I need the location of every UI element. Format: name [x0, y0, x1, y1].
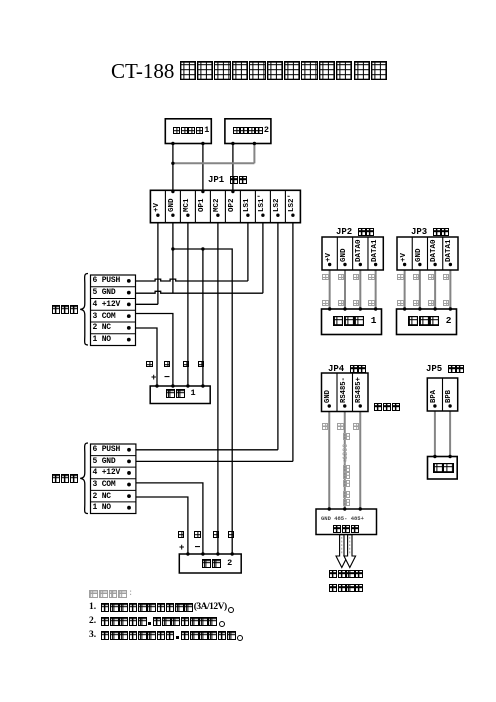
box: PSU1 terminal rows — [91, 275, 136, 346]
label: JP5 pin names — [430, 373, 440, 403]
connector JP5 — [427, 378, 457, 411]
box: card reader 1 — [322, 309, 382, 335]
connector JP3 — [397, 237, 458, 270]
label: shielded twisted pair <1200m (rotated) — [343, 434, 351, 506]
connector JP2 — [322, 237, 383, 270]
note item 2 — [89, 617, 225, 627]
wire: JP1 LS1' down then left to PSU1 GND (hop at +V) — [262, 223, 264, 294]
wire: JP3 reader2 gray wires — [404, 270, 406, 309]
label: lock2 name — [202, 559, 232, 568]
wire: PSU1 NC to lock1 red — [136, 328, 158, 386]
wire: JP1 +V down to PSU1 +12V — [157, 223, 159, 305]
label: JP4 pin names — [324, 369, 334, 403]
label: JP3 connector title — [411, 228, 450, 236]
node: communicator entries — [328, 507, 331, 510]
node: JP2 pin dots — [328, 263, 331, 266]
wire: button2 left pin to JP1 OP2 — [232, 144, 234, 191]
label: management computer — [329, 584, 364, 592]
brace: PSU1 group — [80, 274, 88, 346]
label: JP4 connector title — [328, 365, 367, 373]
node: junction GND/magnet bus — [171, 247, 174, 250]
wire: drop to lock1 magnet — [202, 249, 204, 386]
node: PSU1 row terminal dots — [127, 279, 131, 283]
wire: JP5 doorbell gray wires — [434, 411, 436, 457]
node: JP3 pin dots — [403, 263, 406, 266]
label: PSU2 group name — [52, 474, 79, 483]
note item 3 — [89, 631, 243, 641]
label: lock2 polarity — [179, 544, 184, 552]
node: PSU2 row terminal dots — [127, 448, 131, 452]
node: reader2 entries — [403, 307, 406, 310]
label: PSU1 rows — [93, 276, 121, 285]
label: lock2 wire names — [178, 531, 185, 538]
label: lock1 name — [166, 389, 196, 398]
label: lock1 wire names red black door magnet — [146, 361, 153, 368]
label: communicator box name — [333, 525, 360, 533]
label: button 1 — [173, 127, 209, 134]
box: lock 1 — [150, 386, 210, 404]
wire: JP2 reader1 gray wires — [329, 270, 331, 309]
wire: JP1 MC1 down to lock1 door-contact — [187, 223, 189, 386]
label: button 2 — [233, 127, 269, 134]
label: JP2 pin names — [325, 232, 335, 262]
wire: JP1 LS2 down then left to PSU2 PUSH — [277, 223, 279, 450]
brace: PSU2 group — [80, 443, 88, 514]
box: doorbell — [428, 457, 458, 480]
label: PSU2 rows — [93, 445, 121, 454]
note item 1 — [89, 603, 234, 613]
node: JP1 top entries — [171, 190, 174, 193]
title text CT-188 — [111, 61, 388, 82]
note heading — [89, 590, 133, 599]
wire: magnet-common bus from GND junction to lock2 magnet — [173, 249, 232, 554]
label: reader wire colors row1 — [322, 274, 328, 280]
wire: PSU2 NC to lock2 red — [136, 497, 188, 554]
label: JP2 connector title — [336, 228, 375, 236]
node: lock1 terminals — [155, 384, 158, 387]
wire: PSU2 COM to lock2 black — [136, 483, 203, 554]
wire: JP1 MC2 down to lock2 door-contact — [217, 223, 219, 554]
label: comm wire colors — [322, 423, 329, 430]
label: lock1 polarity — [151, 374, 156, 382]
box: card reader 2 — [397, 309, 457, 335]
label: PSU1 group name — [52, 305, 79, 314]
label: card reader 1 — [333, 316, 376, 326]
wire: button1 right pin to JP1 OP1 — [202, 144, 204, 191]
wire: PSU1 COM to lock1 black — [136, 314, 173, 387]
wire: button2 right pin gray drop — [253, 144, 255, 164]
label: communicator (beside JP4) — [374, 403, 401, 412]
box: open-door button 2 — [225, 119, 271, 144]
label: reader wire colors row2 — [322, 300, 328, 306]
label: communicator box pins — [321, 516, 364, 521]
node: JP4 pin dots — [328, 404, 331, 407]
label: JP5 connector title — [426, 365, 465, 373]
wire: JP1 LS1 down then left to PSU1 PUSH (with hops) — [247, 223, 249, 281]
node: junction on GND wire — [171, 162, 174, 165]
label: serial port — [329, 570, 364, 578]
arrow: communicator to serial port (double hollow) — [336, 535, 348, 568]
wire: JP4 communicator gray wires — [328, 412, 330, 510]
node: doorbell entries — [433, 455, 436, 458]
box: PSU2 terminal rows — [91, 444, 136, 514]
label: card reader 2 — [408, 316, 451, 326]
node: lock2 terminals — [186, 552, 189, 555]
node: junction magnet1 tap — [201, 247, 204, 250]
connector JP4 — [322, 373, 369, 412]
label: JP1 connector title — [208, 176, 248, 185]
label: JP3 pin names — [400, 232, 410, 262]
node: button pin dots — [171, 142, 174, 145]
node: reader1 entries — [328, 307, 331, 310]
wire: JP1 GND down to PSU1 GND line — [172, 223, 174, 294]
box: lock 2 — [179, 554, 241, 573]
wire: gray jumper button2 to GND node — [173, 162, 255, 164]
wire: JP1 LS2' down then left to PSU2 GND — [292, 223, 294, 462]
node: JP1 bottom pin dots — [156, 214, 159, 217]
label: JP1 pin names — [153, 182, 163, 212]
node: JP5 pin dots — [433, 404, 436, 407]
label: doorbell — [433, 463, 455, 473]
box: open-door button 1 — [165, 119, 211, 144]
connector JP1 — [150, 190, 300, 222]
wire: button1 left pin to JP1 GND — [172, 144, 174, 191]
box: communicator — [316, 509, 377, 535]
